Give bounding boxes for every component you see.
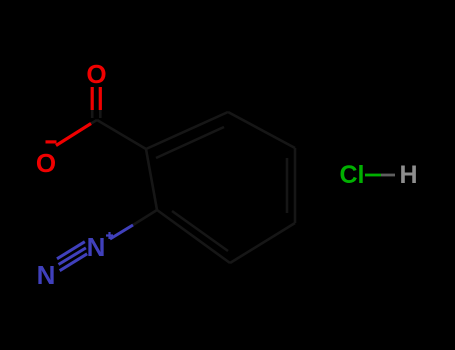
double bond C7=O1 line 2 <box>99 87 102 110</box>
triple bond N1-N2 line bottom <box>60 254 87 271</box>
bond F-N1 carbon half <box>133 210 157 225</box>
ring bond E-F inner double line <box>172 211 228 251</box>
bond C7-A (carboxyl C to ring C1) <box>97 120 146 149</box>
svg-text:H: H <box>399 161 417 189</box>
double bond C7=O1 line 1 <box>91 87 94 110</box>
bond Cl-H chlorine half (green) <box>365 174 381 177</box>
ring bond D-E (bottom-right edge) <box>230 223 295 263</box>
benzene ring C1-C6 skeleton <box>85 108 295 263</box>
ring bond A-B inner double line <box>156 127 224 158</box>
svg-text:Cl: Cl <box>340 161 365 189</box>
svg-text:O: O <box>86 59 106 89</box>
svg-text:N: N <box>87 232 106 262</box>
triple bond N1-N2 line middle <box>59 248 86 265</box>
bond F-N1 nitrogen half <box>110 225 133 239</box>
bond Cl-H hydrogen half (gray) <box>381 174 395 177</box>
ring bond C-D (right edge) <box>294 148 297 223</box>
svg-text:N: N <box>37 260 56 290</box>
bond C7=O1 carbon-side dark stubs <box>91 108 94 118</box>
bond C7-O2 carbon-side dark stub <box>85 120 97 127</box>
ring bond C-D inner double line <box>286 158 289 213</box>
ring bond E-F (bottom edge) <box>157 210 230 263</box>
ring bond B-C (top-right edge) <box>228 112 295 148</box>
bond C7-O2 red half <box>56 124 91 146</box>
svg-text:O: O <box>36 148 56 178</box>
diazonium group (blue) <box>57 225 133 271</box>
carboxylate group (red) <box>56 87 100 146</box>
N1 plus charge <box>106 232 113 239</box>
ring bond F-A (left edge) <box>146 149 157 210</box>
triple bond N1-N2 line top <box>57 242 85 259</box>
O2 minus charge <box>46 140 57 143</box>
ring bond A-B (C1-C6 top-left edge) <box>146 112 228 149</box>
